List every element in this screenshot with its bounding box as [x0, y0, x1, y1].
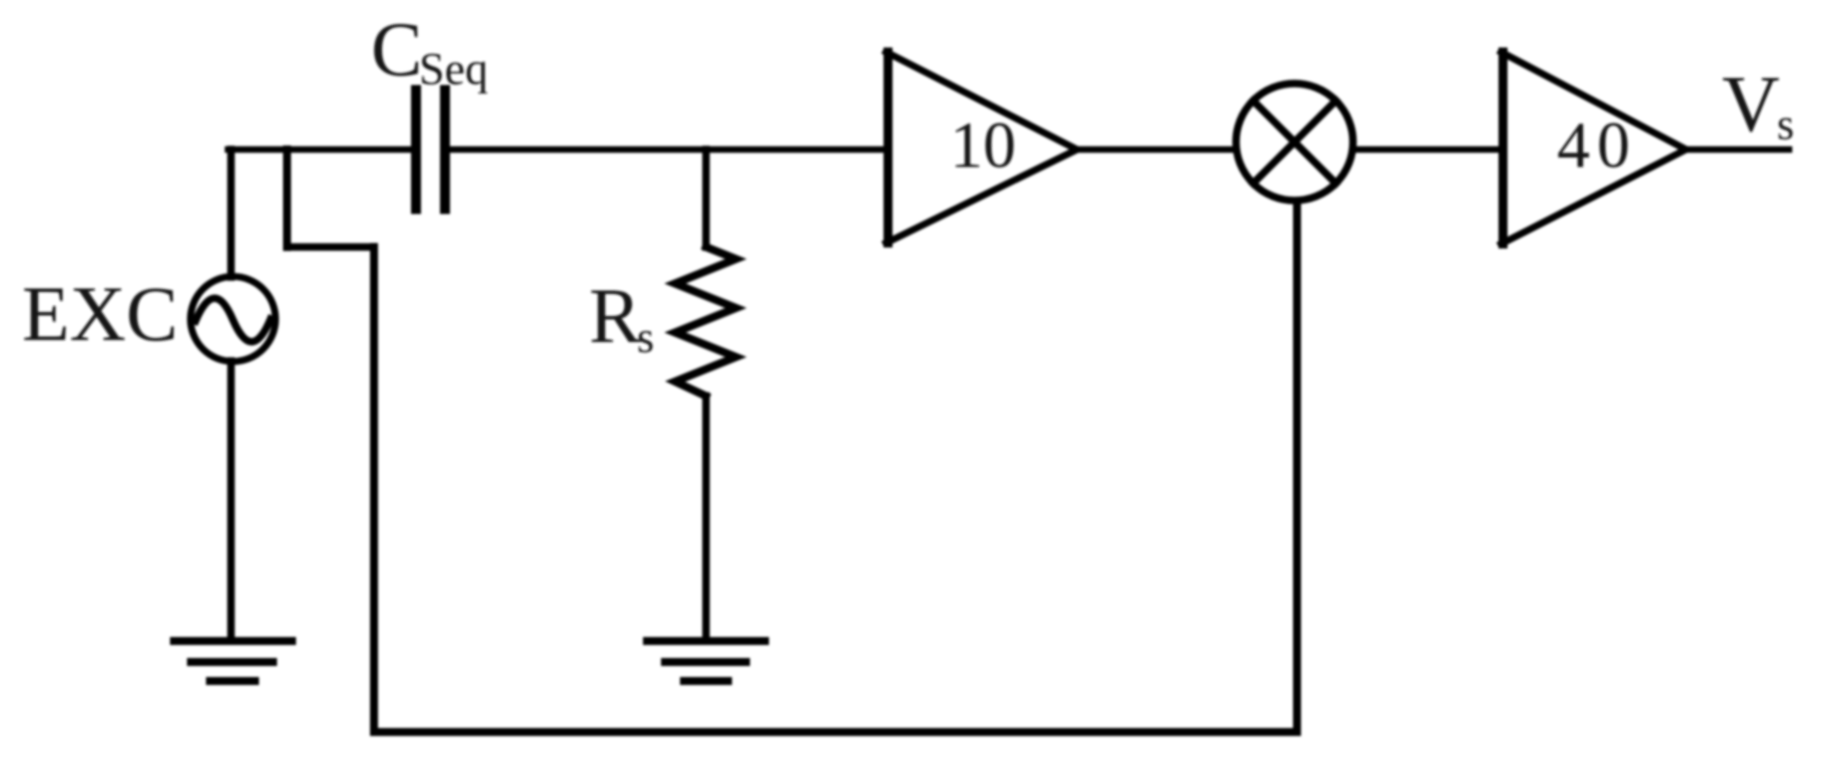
wire main horizontal left (node to capacitor) [228, 146, 413, 153]
resistor Rs stem top [702, 150, 710, 248]
mixer X diagonal 2 [1253, 101, 1336, 184]
wire feedback tap vertical from node [283, 150, 291, 248]
wire output Vs [1686, 146, 1789, 153]
svg-text:1: 1 [950, 109, 983, 182]
capacitor CSeq right plate [440, 90, 450, 209]
wire capacitor to amplifier input [448, 146, 888, 153]
svg-text:s: s [637, 313, 654, 362]
mixer circle [1236, 84, 1353, 201]
svg-text:0: 0 [1597, 109, 1630, 182]
amplifier gain 40 triangle left edge [1499, 52, 1508, 244]
svg-text:0: 0 [983, 109, 1016, 182]
wire feedback horizontal jog [287, 243, 374, 251]
wire amplifier 10 output to mixer [1077, 146, 1236, 153]
svg-text:Seq: Seq [419, 43, 488, 94]
wire feedback up to mixer [1293, 204, 1301, 732]
svg-text:C: C [371, 6, 422, 92]
wire source bottom to ground [227, 361, 235, 639]
ac source sine wave [196, 298, 271, 342]
svg-text:V: V [1722, 61, 1780, 149]
resistor Rs stem bottom [702, 396, 710, 639]
wire feedback long vertical down [370, 247, 378, 732]
amplifier gain 10 triangle slants [886, 52, 1077, 243]
mixer X diagonal 1 [1253, 101, 1336, 184]
capacitor CSeq left plate [411, 90, 421, 209]
wire mixer output to amplifier 40 [1353, 146, 1503, 153]
svg-text:R: R [589, 272, 641, 359]
resistor Rs zigzag [675, 247, 736, 396]
svg-text:s: s [1777, 100, 1794, 149]
ac source EXC circle [191, 277, 276, 362]
amplifier gain 40 triangle slants [1501, 52, 1686, 244]
wire feedback bottom bus [374, 728, 1297, 736]
svg-text:4: 4 [1557, 109, 1590, 182]
amplifier gain 10 triangle left edge [884, 52, 893, 243]
wire source top vertical [227, 150, 235, 278]
ground under EXC source [174, 641, 292, 681]
svg-text:EXC: EXC [22, 270, 178, 357]
ground under resistor Rs [647, 641, 765, 681]
